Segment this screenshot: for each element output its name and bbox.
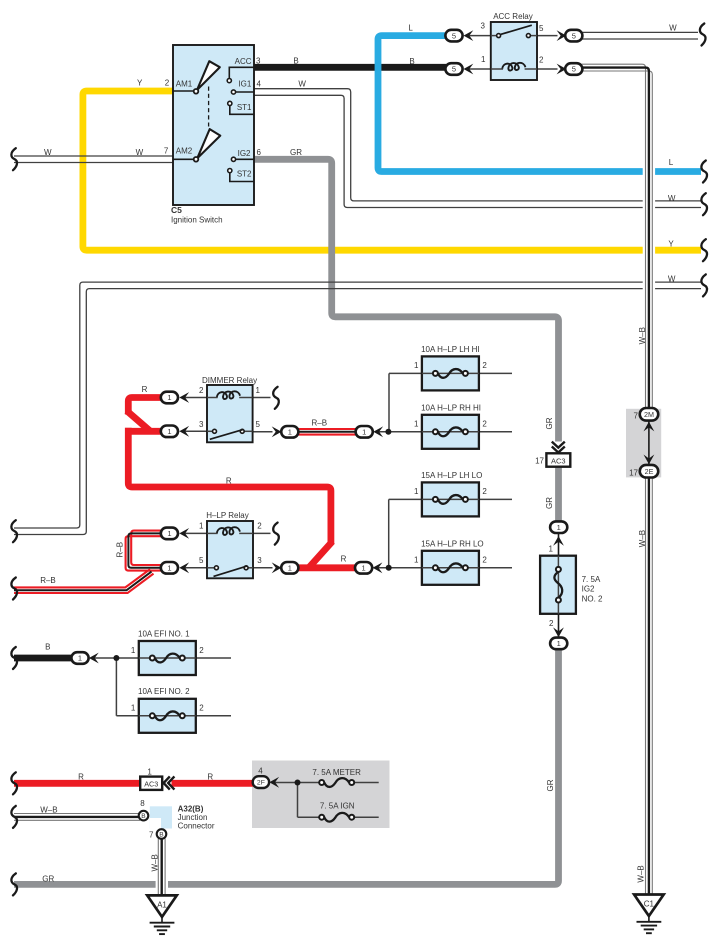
svg-text:5: 5 <box>572 31 576 40</box>
svg-text:L: L <box>408 23 413 32</box>
wire W (white) left edge up to right edge <box>14 282 701 534</box>
connector oval 1 (H-LP pin3 out) <box>272 562 299 574</box>
svg-text:Y: Y <box>668 239 674 248</box>
DIMMER relay coil <box>207 391 253 399</box>
squiggle left R <box>11 772 17 794</box>
svg-text:15A H–LP RH LO: 15A H–LP RH LO <box>421 539 484 548</box>
connector oval 1 (dimmer pin2) <box>161 392 189 404</box>
connector oval 2M <box>634 408 659 421</box>
svg-text:W: W <box>298 80 306 89</box>
svg-text:W: W <box>136 148 144 157</box>
pin lines ACC relay <box>468 36 558 69</box>
wire B (black) to EFI fuses from left edge <box>14 655 72 662</box>
svg-text:8: 8 <box>140 799 145 808</box>
label L <box>408 23 413 32</box>
svg-text:NO. 2: NO. 2 <box>582 594 603 603</box>
pin lines H-LP relay <box>184 533 273 567</box>
ACC relay pin numbers <box>481 22 544 65</box>
label GR vertical <box>545 417 554 429</box>
svg-text:15A H–LP LH LO: 15A H–LP LH LO <box>421 471 482 480</box>
wire Y (yellow) ignition AM1 to right edge <box>83 91 701 250</box>
svg-text:W: W <box>669 24 677 33</box>
wire W (white) ACC relay pin5 to right edge <box>582 32 699 39</box>
svg-text:R: R <box>142 385 148 394</box>
svg-text:R–B: R–B <box>116 542 125 558</box>
svg-text:2: 2 <box>165 79 170 88</box>
svg-text:W–B: W–B <box>638 327 647 344</box>
svg-text:6: 6 <box>257 148 262 157</box>
svg-text:1: 1 <box>557 639 561 648</box>
pin 1 label IG2 fuse <box>549 544 554 553</box>
svg-text:L: L <box>669 158 674 167</box>
svg-text:2M: 2M <box>644 410 654 419</box>
label R <box>207 772 213 781</box>
svg-text:3: 3 <box>199 420 204 429</box>
double chevron into AC3 (gray wire) <box>552 442 565 453</box>
svg-text:B: B <box>141 813 146 820</box>
svg-text:1: 1 <box>167 427 171 436</box>
label R trunk <box>226 476 232 485</box>
fuse 15A H-LP RH LO <box>414 539 487 584</box>
label R <box>341 555 347 564</box>
svg-text:AM1: AM1 <box>176 80 193 89</box>
H-LP relay pin numbers <box>199 522 262 566</box>
label B <box>293 56 298 65</box>
svg-text:1: 1 <box>288 428 292 437</box>
squiggle left GR <box>11 873 17 895</box>
svg-text:10A H–LP RH HI: 10A H–LP RH HI <box>421 403 481 412</box>
ignition ST1 terminal <box>228 101 254 114</box>
svg-text:2: 2 <box>199 386 204 395</box>
double chevron after AC3 (red wire) <box>164 776 175 789</box>
svg-text:1: 1 <box>167 564 171 573</box>
svg-text:3: 3 <box>257 556 262 565</box>
squiggle left W-B <box>11 806 17 828</box>
svg-text:W: W <box>44 148 52 157</box>
label W-B vertical <box>638 327 647 344</box>
junction dot at 10A fuse feed <box>385 429 391 435</box>
svg-text:7: 7 <box>634 412 639 421</box>
shaded box for 2M/2E connector pair <box>626 409 661 478</box>
label GR vertical <box>546 779 555 791</box>
label W <box>136 148 144 157</box>
junction dot meter/ign <box>295 780 301 786</box>
svg-text:1: 1 <box>147 768 152 777</box>
svg-text:GR: GR <box>546 779 555 791</box>
wire W-B (white-black) A32(B) down to ground A1 <box>156 839 168 897</box>
svg-text:GR: GR <box>42 875 54 884</box>
ACC relay coil <box>491 63 537 71</box>
label W <box>668 275 676 284</box>
connector oval 2E <box>629 465 658 478</box>
wire EFI fuse feed lines <box>93 658 231 716</box>
svg-text:1: 1 <box>78 654 82 663</box>
wire break squiggle (H-LP pin2) <box>273 523 279 545</box>
svg-text:2: 2 <box>199 704 204 713</box>
svg-text:B: B <box>45 643 50 652</box>
ignition switch C5 box and terminal labels <box>173 45 254 205</box>
svg-text:4: 4 <box>258 766 263 775</box>
svg-text:C1: C1 <box>644 900 655 909</box>
svg-text:AC3: AC3 <box>551 456 566 465</box>
svg-text:ST2: ST2 <box>237 170 252 179</box>
svg-text:W–B: W–B <box>638 530 647 547</box>
svg-text:2E: 2E <box>645 467 654 476</box>
svg-text:1: 1 <box>167 529 171 538</box>
squiggle right W <box>701 193 707 215</box>
ground A1 <box>147 895 177 934</box>
relay U1 ACC relay box <box>491 22 537 80</box>
squiggle left W lower <box>11 520 17 542</box>
svg-text:GR: GR <box>290 148 302 157</box>
ignition ACC terminal <box>227 67 254 82</box>
fuse 10A EFI NO. 1 <box>131 629 204 675</box>
wire R-B (stripe) H-LP relay pin1/pin5 U-link <box>126 531 162 571</box>
fuse 7.5A METER symbol <box>312 768 361 787</box>
wire 15A H-LP fuse feed lines <box>378 499 513 567</box>
svg-text:R–B: R–B <box>312 419 328 428</box>
svg-text:2: 2 <box>482 361 487 370</box>
label W-B vertical <box>637 865 646 882</box>
wire W-B (white-black) left edge to A32(B) <box>14 814 140 821</box>
label R-B vertical <box>116 542 125 558</box>
ignition IG1 terminal <box>231 90 254 94</box>
svg-text:5: 5 <box>452 65 456 74</box>
label W <box>669 24 677 33</box>
svg-text:10A H–LP LH HI: 10A H–LP LH HI <box>421 345 480 354</box>
ignition switch mechanical link (dashed) <box>208 87 210 127</box>
svg-text:1: 1 <box>288 564 292 573</box>
connector oval 5 (ACC relay pin3 side) <box>445 30 473 42</box>
svg-text:17: 17 <box>629 468 638 477</box>
squiggle left R-B <box>11 578 17 600</box>
ignition AM1 contact and blade <box>173 61 220 93</box>
wire W (white) left edge to ignition AM2 <box>14 156 173 163</box>
connector oval 1 (dimmer pin5 out) <box>272 426 299 438</box>
label W <box>298 80 306 89</box>
H-LP relay switch <box>207 566 253 577</box>
arrow up to 2M <box>644 422 655 432</box>
svg-text:1: 1 <box>414 361 419 370</box>
junction dot EFI <box>113 655 119 661</box>
ignition IG2 terminal <box>231 157 254 161</box>
svg-text:7: 7 <box>149 830 154 839</box>
wire 2M to 2E link line <box>648 420 650 465</box>
svg-text:W–B: W–B <box>40 806 57 815</box>
svg-text:2: 2 <box>482 556 487 565</box>
fuse 10A EFI NO. 2 <box>131 687 204 733</box>
svg-text:5: 5 <box>199 556 204 565</box>
svg-text:7. 5A IGN: 7. 5A IGN <box>320 802 355 811</box>
label GR vertical <box>545 497 554 509</box>
wire fuse IG2 NO.2 vertical stubs <box>558 533 560 637</box>
svg-text:W: W <box>668 275 676 284</box>
wire break squiggle (dimmer pin1) <box>273 387 279 409</box>
ignition AM2 contact and blade <box>173 129 220 162</box>
svg-text:H–LP Relay: H–LP Relay <box>206 511 249 520</box>
relay DIMMER box <box>207 385 253 442</box>
label Y <box>137 79 143 88</box>
squiggle right W top <box>700 24 706 46</box>
svg-text:1: 1 <box>199 522 204 531</box>
svg-text:1: 1 <box>414 420 419 429</box>
connector AC3 (red wire) <box>140 768 162 790</box>
connector oval 1 (R to 15A fuses) <box>355 562 382 574</box>
svg-text:1: 1 <box>414 556 419 565</box>
wire 10A H-LP fuse feed lines <box>378 373 513 431</box>
H-LP relay coil <box>207 527 253 535</box>
svg-text:10A EFI NO. 1: 10A EFI NO. 1 <box>138 629 190 638</box>
wire W (white) ignition IG1 to right edge <box>254 89 701 208</box>
fuse 10A H-LP RH HI <box>414 403 487 448</box>
svg-text:B: B <box>409 57 414 66</box>
wire R (red) trunk to H-LP relay pin3 <box>128 428 356 568</box>
svg-text:4: 4 <box>257 80 262 89</box>
svg-text:7. 5A METER: 7. 5A METER <box>312 768 361 777</box>
relay H-LP box <box>207 521 253 578</box>
svg-text:2F: 2F <box>257 780 265 787</box>
connector oval 1 (EFI feed) <box>71 652 98 664</box>
label Y <box>668 239 674 248</box>
squiggle left B <box>11 647 17 669</box>
connector AC3 (right column) <box>535 453 570 466</box>
wire R-B (stripe) left edge to H-LP relay pin5 <box>14 569 154 593</box>
squiggle right L <box>701 161 707 183</box>
svg-text:1: 1 <box>549 544 554 553</box>
svg-text:1: 1 <box>557 523 561 532</box>
ignition switch pin numbers <box>164 57 262 158</box>
label W-B vertical <box>638 530 647 547</box>
svg-text:1: 1 <box>167 393 171 402</box>
svg-text:W: W <box>668 194 676 203</box>
svg-text:10A EFI NO. 2: 10A EFI NO. 2 <box>138 687 190 696</box>
svg-text:1: 1 <box>131 646 136 655</box>
svg-text:DIMMER Relay: DIMMER Relay <box>202 376 257 385</box>
wire B (black) ignition ACC to ACC relay pin1 <box>254 64 447 71</box>
wire L (blue) ACC relay pin3 to right edge <box>378 36 701 172</box>
svg-text:1: 1 <box>131 704 136 713</box>
pin lines dimmer relay <box>184 398 273 432</box>
svg-text:3: 3 <box>481 22 486 31</box>
wire R-B (stripe) dimmer pin5 to fuse junction <box>299 429 356 435</box>
connector oval 5 (ACC relay pin5 side) <box>557 30 583 42</box>
svg-text:2: 2 <box>482 420 487 429</box>
svg-text:1: 1 <box>362 564 366 573</box>
connector oval 1 (H-LP pin1) <box>161 528 189 540</box>
label W-B vertical <box>151 854 160 871</box>
ignition ST2 terminal <box>228 169 254 182</box>
label R-B <box>312 419 328 428</box>
svg-text:1: 1 <box>362 428 366 437</box>
label W <box>668 194 676 203</box>
svg-text:5: 5 <box>452 31 456 40</box>
wire GR (gray) fuse IG2 NO.2 down and left to edge <box>14 650 559 884</box>
connector oval 1 (below IG2 fuse) <box>550 627 567 649</box>
label B <box>45 643 50 652</box>
svg-text:2: 2 <box>482 487 487 496</box>
connector oval 1 (above IG2 fuse) <box>550 521 567 545</box>
svg-text:17: 17 <box>535 457 544 466</box>
squiggle right W lower <box>701 274 707 296</box>
ACC relay title <box>493 12 533 21</box>
svg-text:W–B: W–B <box>151 854 160 871</box>
ACC relay switch contacts <box>491 25 537 37</box>
wire W-B (white-black) ACC relay pin2 down right side to C1 <box>582 64 656 895</box>
svg-text:1: 1 <box>256 386 261 395</box>
svg-text:ACC: ACC <box>235 57 252 66</box>
svg-text:B: B <box>293 56 298 65</box>
svg-text:Connector: Connector <box>178 821 215 830</box>
svg-text:7. 5A: 7. 5A <box>582 575 601 584</box>
fuse 10A H-LP LH HI <box>414 345 487 390</box>
svg-text:AM2: AM2 <box>176 147 193 156</box>
connector oval 1 (R-B to fuses) <box>356 426 383 438</box>
svg-text:C5: C5 <box>171 205 182 215</box>
wire R (red) AC3 to 2F <box>172 780 254 787</box>
svg-text:2: 2 <box>257 522 262 531</box>
svg-text:W–B: W–B <box>637 865 646 882</box>
svg-text:1: 1 <box>414 487 419 496</box>
label W <box>44 148 52 157</box>
ground C1 <box>634 895 664 934</box>
fuse 15A H-LP LH LO <box>414 471 487 516</box>
svg-text:3: 3 <box>256 57 261 66</box>
svg-text:GR: GR <box>545 497 554 509</box>
label R-B <box>40 576 56 585</box>
squiggle left W <box>11 148 17 170</box>
svg-text:AC3: AC3 <box>144 780 158 789</box>
svg-text:R: R <box>341 555 347 564</box>
squiggle right Y <box>701 239 707 261</box>
svg-text:R: R <box>226 476 232 485</box>
label L <box>669 158 674 167</box>
svg-text:R: R <box>207 772 213 781</box>
label GR <box>42 875 54 884</box>
connector oval 2F <box>253 766 279 788</box>
connector oval 1 (H-LP pin5) <box>161 562 189 574</box>
svg-text:IG1: IG1 <box>238 80 251 89</box>
svg-text:5: 5 <box>572 65 576 74</box>
svg-text:Ignition Switch: Ignition Switch <box>171 216 223 225</box>
connector oval 5 (ACC relay pin1 side) <box>445 63 473 75</box>
svg-text:GR: GR <box>545 417 554 429</box>
wire R (red) dimmer relay pin2 branch <box>125 398 178 432</box>
connector oval 5 (ACC relay pin2 side) <box>557 63 583 75</box>
pin 2 label IG2 fuse <box>549 619 554 628</box>
fuse 7.5A IG2 NO.2 <box>540 556 603 614</box>
label R <box>78 772 84 781</box>
svg-text:R–B: R–B <box>40 576 56 585</box>
svg-text:IG2: IG2 <box>238 149 251 158</box>
svg-text:2: 2 <box>199 646 204 655</box>
svg-text:Y: Y <box>137 79 143 88</box>
svg-text:2: 2 <box>549 619 554 628</box>
DIMMER relay pin numbers <box>199 386 260 429</box>
label B <box>409 57 414 66</box>
connector oval 1 (dimmer pin3) <box>161 426 189 438</box>
svg-text:R: R <box>78 772 84 781</box>
svg-text:1: 1 <box>481 55 486 64</box>
svg-text:IG2: IG2 <box>582 585 595 594</box>
arrow down to 2E <box>644 455 655 465</box>
svg-text:5: 5 <box>256 420 261 429</box>
wire R (red) from left edge to AC3 <box>14 780 141 787</box>
svg-text:B: B <box>159 832 164 839</box>
label C5 / Ignition Switch <box>171 205 223 225</box>
svg-text:ST1: ST1 <box>237 103 252 112</box>
label W-B <box>40 806 57 815</box>
wire GR (gray) ignition IG2 down to AC3 <box>254 159 559 521</box>
H-LP relay title <box>206 511 249 520</box>
svg-text:A1: A1 <box>157 900 167 909</box>
label GR <box>290 148 302 157</box>
fuse 7.5A IGN symbol <box>319 802 355 822</box>
svg-text:5: 5 <box>539 24 544 33</box>
junction connector A32(B) <box>139 799 215 839</box>
DIMMER relay title <box>202 376 257 385</box>
junction dot at 15A fuse feed <box>386 565 392 571</box>
svg-text:ACC Relay: ACC Relay <box>493 12 533 21</box>
label R <box>142 385 148 394</box>
svg-text:2: 2 <box>539 55 544 64</box>
DIMMER relay switch <box>207 429 253 439</box>
shaded box for 7.5A METER / 7.5A IGN fuses <box>252 761 390 829</box>
svg-text:7: 7 <box>164 147 169 156</box>
wire 7.5A METER / IGN fuse lines <box>273 783 379 818</box>
